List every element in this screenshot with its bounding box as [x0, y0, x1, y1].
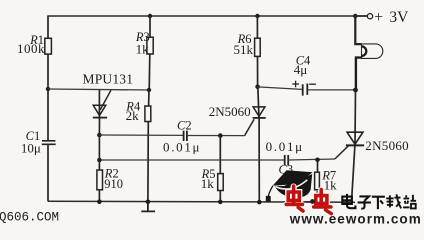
node earphone bottom / SCR2 anode — [353, 88, 358, 93]
earphone BE inner arc — [362, 46, 367, 56]
wire rail segment between logo characters — [304, 201, 314, 203]
thyristor D1 2N5060 cathode bar — [253, 117, 266, 119]
node R7 top — [315, 158, 320, 163]
capacitor C3 — [285, 155, 289, 165]
watermark logo text dian (electric) — [342, 194, 355, 208]
wire R2 lower lead — [98, 190, 100, 202]
thyristor D1 2N5060 anode lead — [258, 87, 259, 118]
wire R7 lower lead — [314, 191, 318, 201]
watermark logo text xia (down) — [372, 197, 385, 210]
svg-text:0.01μ: 0.01μ — [163, 139, 201, 154]
wire C1 upper lead — [47, 89, 49, 141]
transistor Q1 MPU131 PUT gate lead — [100, 90, 111, 110]
capacitor C2 — [184, 131, 187, 141]
svg-text:www.eeworm.com: www.eeworm.com — [289, 212, 422, 226]
svg-text:3V: 3V — [389, 9, 409, 26]
svg-text:2N5060: 2N5060 — [365, 138, 409, 153]
watermark logo graduation cap board — [273, 170, 313, 185]
svg-text:51k: 51k — [234, 42, 254, 57]
thyristor D1 gate lead — [245, 119, 255, 135]
watermark logo text zi (son) — [358, 196, 371, 208]
wire C3 right segment to gate — [288, 159, 335, 160]
node ground rail R7 — [310, 199, 315, 204]
watermark logo graduation cap white stripe — [275, 180, 307, 189]
wire PUT cathode down to C2 node — [98, 118, 100, 135]
svg-text:Q606.COM: Q606.COM — [0, 210, 59, 224]
svg-text:10μ: 10μ — [21, 140, 41, 155]
wire C2 left segment — [99, 134, 183, 136]
thyristor D2 2N5060 cathode bar — [346, 144, 364, 146]
wire C1 lower lead — [47, 144, 49, 201]
thyristor D1 2N5060 triangle — [253, 107, 265, 116]
transistor Q1 MPU131 PUT triangle — [93, 105, 106, 115]
watermark logo graduation cap body — [275, 174, 313, 198]
node R6 bottom / C4 / SCR1 anode — [255, 84, 260, 89]
svg-text:910: 910 — [104, 177, 123, 191]
svg-text:C2: C2 — [177, 118, 192, 132]
terminal +3V circle — [367, 14, 372, 19]
resistor R2 — [97, 170, 103, 190]
watermark logo chong character 2 white halo — [314, 190, 331, 213]
wire C2 right segment — [187, 135, 245, 137]
wire R6 lower lead — [257, 56, 259, 86]
wire R3 upper lead — [149, 16, 151, 37]
svg-text:1k: 1k — [324, 178, 338, 193]
wire battery terminal — [355, 15, 367, 17]
svg-text:MPU131: MPU131 — [83, 72, 134, 87]
node PUT cathode / C2 wire — [97, 133, 102, 138]
wire SCR1 cathode to ground rail — [258, 118, 260, 202]
resistor R6 — [255, 38, 261, 56]
node R6 top — [255, 14, 259, 18]
wire R2 upper lead — [98, 135, 100, 170]
wire R4 bottom to ground rail — [147, 122, 149, 202]
thyristor D2 gate lead — [335, 146, 348, 159]
watermark logo chong character 1 white halo — [287, 187, 303, 211]
node R2 top / C3 wire — [97, 158, 102, 163]
wire R3 bottom to node — [148, 54, 151, 90]
capacitor C1 — [42, 141, 56, 145]
wire top power rail — [48, 15, 368, 17]
node ground rail R5 — [218, 200, 223, 205]
svg-text:0.01μ: 0.01μ — [266, 139, 304, 154]
wire R5 lower lead — [219, 191, 221, 202]
watermark logo chong character 2 red strokes — [314, 190, 332, 214]
wire R5 upper lead — [219, 136, 221, 174]
wire SCR2 cathode to ground rail — [352, 145, 355, 202]
resistor R5 — [218, 174, 224, 191]
wire C3 left segment from R2 node — [99, 159, 284, 161]
earphone BE body outline — [362, 44, 383, 59]
node R5 top — [218, 133, 223, 138]
node ground rail SCR1 — [257, 200, 262, 205]
node R3/R4/gate junction — [147, 88, 151, 92]
wire R1 bottom to node — [47, 54, 49, 89]
wire R6 upper lead — [256, 16, 258, 38]
watermark logo chong character 1 red strokes — [286, 186, 303, 211]
node ground rail R4 — [146, 200, 151, 205]
node earphone branch top — [353, 14, 357, 18]
watermark logo graduation cap tassel — [268, 186, 273, 197]
node ground rail R2 — [97, 199, 102, 204]
wire bottom ground rail — [48, 200, 355, 203]
capacitor C4 — [303, 84, 308, 96]
svg-text:+: + — [374, 9, 383, 26]
watermark logo text zai (load) — [386, 194, 401, 208]
earphone BE bottom lead — [356, 58, 362, 90]
svg-text:100k: 100k — [17, 41, 45, 56]
thyristor D2 2N5060 anode lead — [354, 90, 357, 145]
wire C4 right segment — [307, 89, 355, 91]
wire node to PUT anode and gate node — [48, 89, 149, 90]
resistor R7 — [315, 172, 320, 190]
resistor R3 — [147, 37, 153, 54]
node R3 top — [148, 14, 152, 18]
resistor R4 — [145, 106, 151, 122]
wire C4 left segment — [258, 87, 302, 90]
transistor Q1 MPU131 PUT anode lead — [98, 90, 100, 117]
earphone BE top lead — [355, 16, 361, 44]
thyristor D2 2N5060 triangle — [347, 132, 363, 144]
svg-text:2k: 2k — [126, 108, 140, 123]
svg-text:2N5060: 2N5060 — [209, 104, 251, 119]
svg-text:1k: 1k — [136, 41, 150, 56]
wire R7 upper lead — [317, 160, 319, 173]
label C4 plus sign — [292, 81, 299, 88]
wire R4 upper lead — [148, 90, 150, 106]
transistor Q1 MPU131 PUT cathode bar — [93, 117, 107, 119]
node R1/C1 junction — [46, 87, 50, 91]
svg-text:1k: 1k — [201, 176, 215, 191]
resistor R1 — [45, 38, 52, 54]
svg-text:4μ: 4μ — [294, 62, 308, 77]
label C4 minus dash — [309, 83, 316, 85]
watermark logo text zhan (station) — [403, 195, 416, 209]
ground symbol — [141, 202, 155, 212]
wire R1 branch top — [47, 15, 49, 38]
